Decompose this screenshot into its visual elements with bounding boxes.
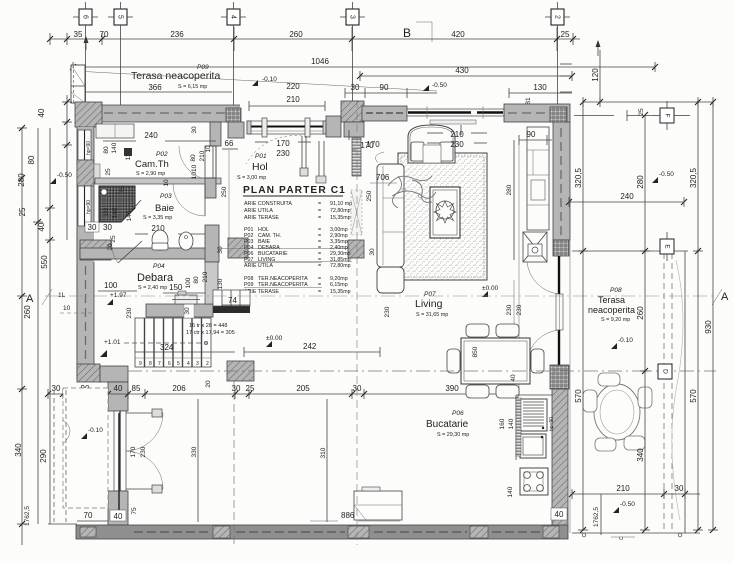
svg-text:210: 210 bbox=[450, 130, 464, 139]
grid A dash line bbox=[45, 295, 718, 297]
dim 40 mid bbox=[114, 384, 123, 393]
dim 40 boxed bottom bbox=[110, 510, 126, 521]
svg-text:3: 3 bbox=[196, 361, 199, 367]
svg-text:85: 85 bbox=[132, 384, 141, 393]
window right mid bbox=[556, 294, 563, 330]
grid bubble 5 bbox=[108, 2, 133, 106]
grid bubble 4 bbox=[221, 2, 246, 110]
armchairs top bbox=[408, 125, 455, 163]
dim 11 bbox=[58, 292, 66, 299]
svg-text:340: 340 bbox=[14, 443, 23, 457]
svg-text:40: 40 bbox=[37, 222, 46, 231]
debara door diagonal bbox=[112, 240, 142, 263]
stair upper treads bbox=[213, 290, 250, 306]
pier grid4 mid crosshatch bbox=[228, 238, 248, 258]
left pier baie corner bbox=[80, 240, 111, 260]
svg-text:3: 3 bbox=[349, 15, 356, 19]
svg-text:706: 706 bbox=[376, 173, 390, 182]
svg-text:-0.50: -0.50 bbox=[620, 501, 635, 508]
svg-text:Terasa neacoperita: Terasa neacoperita bbox=[131, 70, 220, 82]
right dim chain bbox=[578, 97, 718, 530]
svg-text:40: 40 bbox=[114, 384, 123, 393]
grid bubble 6 bbox=[73, 2, 98, 104]
svg-text:PLAN PARTER C1: PLAN PARTER C1 bbox=[243, 185, 346, 196]
level +1.97 bbox=[107, 292, 127, 305]
tv x-brace bbox=[523, 232, 547, 262]
level -0.50 bottom right bbox=[613, 501, 635, 513]
svg-text:=: = bbox=[318, 289, 321, 295]
svg-text:130: 130 bbox=[217, 278, 224, 289]
svg-text:2: 2 bbox=[554, 15, 561, 19]
left labels bbox=[14, 108, 49, 526]
top dimension row bbox=[47, 27, 580, 51]
svg-text:570: 570 bbox=[574, 389, 583, 403]
svg-text:100: 100 bbox=[104, 281, 118, 290]
jamb block window2 bbox=[82, 236, 91, 244]
dim 90 living bbox=[519, 130, 552, 395]
svg-text:7: 7 bbox=[158, 361, 161, 367]
door pier bottom bbox=[108, 413, 128, 525]
svg-text:D: D bbox=[661, 369, 668, 374]
svg-text:=: = bbox=[318, 215, 321, 221]
dim 40 boxed kitchen bbox=[551, 508, 567, 520]
svg-text:230: 230 bbox=[140, 446, 147, 457]
wall camth-hol divider bbox=[210, 122, 221, 146]
svg-text:P04: P04 bbox=[153, 263, 165, 270]
living top wall right bbox=[504, 104, 570, 122]
dim 430 bbox=[357, 66, 575, 81]
svg-text:ARIE UTILA: ARIE UTILA bbox=[244, 208, 273, 214]
svg-text:Baie: Baie bbox=[155, 203, 174, 214]
svg-text:930: 930 bbox=[704, 320, 713, 334]
svg-text:S = 29,30 mp: S = 29,30 mp bbox=[437, 432, 469, 438]
svg-text:140: 140 bbox=[508, 418, 515, 429]
dim 81 rot bbox=[525, 97, 532, 105]
fridge grille bbox=[520, 399, 547, 431]
dim 30 boxed baie bbox=[85, 222, 99, 232]
kitchen sink bbox=[520, 434, 546, 458]
svg-text:35: 35 bbox=[74, 30, 83, 39]
level -0.50 left bbox=[50, 172, 72, 184]
left window 2 bbox=[78, 186, 91, 226]
svg-text:205: 205 bbox=[296, 384, 310, 393]
svg-text:210: 210 bbox=[286, 95, 300, 104]
dim 170 living left bbox=[352, 141, 374, 150]
svg-text:210: 210 bbox=[616, 484, 630, 493]
svg-text:72,80mp: 72,80mp bbox=[330, 263, 351, 269]
dining table bbox=[447, 324, 544, 398]
svg-text:2: 2 bbox=[206, 361, 209, 367]
dim 310 rot bbox=[320, 399, 327, 522]
svg-text:75: 75 bbox=[119, 186, 126, 194]
svg-text:75: 75 bbox=[131, 507, 138, 515]
pier right D crosshatch bbox=[550, 365, 569, 389]
terrace right edge lines bbox=[572, 251, 700, 533]
svg-text:80: 80 bbox=[190, 154, 197, 162]
svg-text:-0.50: -0.50 bbox=[659, 171, 674, 178]
svg-text:9: 9 bbox=[139, 361, 142, 367]
kitchen counter bottom left bbox=[354, 487, 402, 520]
bubble E bbox=[660, 232, 674, 261]
left dim line inner bbox=[45, 128, 55, 524]
svg-text:30: 30 bbox=[184, 307, 191, 315]
dim 66 bbox=[222, 139, 238, 149]
svg-text:Bucatarie: Bucatarie bbox=[426, 419, 469, 430]
hol top window bbox=[247, 118, 327, 137]
wall camth-baie divider bbox=[95, 178, 221, 184]
svg-text:250: 250 bbox=[221, 186, 228, 197]
room Debara bbox=[137, 263, 174, 291]
section A left bbox=[26, 289, 52, 305]
pier below stairs bbox=[227, 361, 254, 381]
toilet bbox=[152, 230, 168, 250]
corner block top right bbox=[550, 107, 567, 122]
camth dims bbox=[103, 126, 216, 176]
svg-text:140: 140 bbox=[507, 486, 514, 497]
svg-text:=: = bbox=[318, 208, 321, 214]
wall top-left corner block bbox=[75, 102, 102, 127]
svg-text:420: 420 bbox=[451, 30, 465, 39]
window mullion marks top bbox=[427, 106, 483, 119]
pier grid3 top bbox=[326, 101, 364, 137]
level +-0.00 stairs bbox=[266, 335, 283, 347]
svg-text:366: 366 bbox=[148, 83, 162, 92]
svg-text:30: 30 bbox=[232, 384, 241, 393]
living rug bbox=[398, 153, 487, 280]
door camth bbox=[179, 146, 216, 180]
svg-text:230: 230 bbox=[450, 140, 464, 149]
terrace top slope line bbox=[75, 71, 437, 91]
dim 160 140 rot kitchen bbox=[499, 418, 515, 429]
bubble D bbox=[658, 364, 672, 379]
svg-text:140: 140 bbox=[126, 210, 133, 221]
svg-text:10: 10 bbox=[163, 179, 170, 187]
svg-text:4: 4 bbox=[230, 15, 237, 19]
dim ticks hol window bbox=[349, 125, 461, 140]
svg-text:-0.10: -0.10 bbox=[262, 76, 277, 83]
svg-text:40: 40 bbox=[510, 374, 517, 382]
small door mark debara bbox=[172, 291, 200, 304]
svg-text:40: 40 bbox=[114, 512, 123, 521]
svg-text:1762,5: 1762,5 bbox=[593, 507, 600, 527]
left terrace bbox=[48, 388, 108, 524]
svg-text:±0.00: ±0.00 bbox=[482, 285, 499, 292]
dim 242 bbox=[244, 342, 380, 357]
label hp=90 win2 bbox=[86, 200, 92, 214]
svg-text:90: 90 bbox=[380, 83, 389, 92]
section A right bbox=[712, 289, 729, 305]
dim 250 rot hol-left bbox=[221, 150, 229, 240]
svg-text:30: 30 bbox=[103, 223, 112, 232]
section letter B bbox=[403, 22, 432, 42]
svg-text:10: 10 bbox=[205, 145, 212, 153]
dims rot right of debara bbox=[185, 271, 224, 289]
tv small box bbox=[528, 244, 542, 256]
svg-text:ARIE UTILA: ARIE UTILA bbox=[244, 263, 273, 269]
svg-text:324: 324 bbox=[160, 343, 174, 352]
svg-text:25: 25 bbox=[638, 108, 645, 116]
svg-text:Cam.Th: Cam.Th bbox=[135, 159, 169, 170]
grid F line bbox=[574, 110, 690, 121]
dim 240 bbox=[569, 192, 684, 207]
svg-text:S = 6,15 mp: S = 6,15 mp bbox=[178, 84, 207, 90]
svg-text:250: 250 bbox=[366, 190, 373, 201]
svg-text:25: 25 bbox=[110, 235, 117, 243]
svg-text:A: A bbox=[26, 293, 34, 305]
svg-text:P08: P08 bbox=[610, 287, 622, 294]
dim 210 30 bottom right bbox=[572, 484, 700, 499]
left dim line top bbox=[62, 95, 72, 240]
svg-text:170: 170 bbox=[276, 139, 290, 148]
svg-text:F: F bbox=[663, 114, 670, 118]
svg-text:230: 230 bbox=[516, 304, 523, 315]
svg-text:6: 6 bbox=[168, 361, 171, 367]
dim 20 rot bbox=[205, 380, 212, 388]
dim 170 right of hol bbox=[366, 140, 380, 149]
living top wall left bbox=[362, 106, 407, 121]
svg-text:S = 31,65 mp: S = 31,65 mp bbox=[416, 312, 448, 318]
svg-text:A: A bbox=[721, 291, 729, 303]
kitchen counter edge bbox=[516, 395, 552, 460]
svg-text:290: 290 bbox=[39, 449, 48, 463]
svg-text:Living: Living bbox=[415, 298, 443, 310]
wall hol-baie right bbox=[205, 146, 216, 198]
dim 220 210 bbox=[286, 82, 300, 104]
svg-text:-0.50: -0.50 bbox=[432, 82, 447, 89]
right terrace round table bbox=[583, 373, 652, 451]
svg-text:=: = bbox=[318, 201, 321, 207]
svg-text:140: 140 bbox=[112, 207, 119, 218]
svg-text:C: C bbox=[619, 536, 625, 540]
living coffee table bbox=[430, 187, 460, 238]
svg-text:90: 90 bbox=[527, 130, 536, 139]
svg-text:30: 30 bbox=[369, 248, 376, 256]
svg-text:S = 3,35 mp: S = 3,35 mp bbox=[143, 215, 172, 221]
right wall kitchen hatched bbox=[552, 389, 568, 530]
svg-text:1L: 1L bbox=[58, 292, 66, 299]
axis dash grid4 bbox=[233, 380, 235, 545]
room Terasa right bbox=[588, 287, 635, 323]
label hp=90 win1 bbox=[86, 141, 92, 155]
svg-text:±0.00: ±0.00 bbox=[266, 335, 283, 342]
svg-text:220: 220 bbox=[286, 82, 300, 91]
dim 170 230 rot door bbox=[130, 446, 147, 457]
pier grid3 mid crosshatch bbox=[348, 240, 364, 258]
pier right of baie bbox=[205, 225, 219, 262]
svg-text:1762,5: 1762,5 bbox=[24, 506, 31, 526]
svg-text:-0.50: -0.50 bbox=[57, 172, 72, 179]
dim 230 rot stairs bbox=[126, 307, 133, 318]
grid D dash line bbox=[128, 370, 716, 372]
svg-text:5: 5 bbox=[177, 361, 180, 367]
dim row 30 90 / 130 bbox=[345, 83, 572, 98]
svg-text:17 ctr x 17,94 = 305: 17 ctr x 17,94 = 305 bbox=[186, 330, 235, 336]
dim 30 rot stairs bbox=[184, 304, 194, 318]
dim 366 bbox=[71, 83, 232, 92]
svg-text:280: 280 bbox=[506, 184, 513, 195]
svg-text:30: 30 bbox=[351, 83, 360, 92]
grid bubble 2 bbox=[545, 2, 570, 105]
left wall upper bbox=[77, 127, 94, 380]
svg-text:170: 170 bbox=[366, 140, 380, 149]
svg-text:20: 20 bbox=[205, 380, 212, 388]
svg-text:206: 206 bbox=[172, 384, 186, 393]
svg-text:Terasa: Terasa bbox=[598, 295, 625, 305]
svg-text:=: = bbox=[318, 263, 321, 269]
svg-text:S = 3,00 mp: S = 3,00 mp bbox=[237, 175, 266, 181]
dim ticks top right bbox=[560, 64, 572, 92]
svg-text:236: 236 bbox=[170, 30, 184, 39]
svg-text:P09: P09 bbox=[244, 282, 253, 288]
label hp=90 kitchen bbox=[549, 417, 555, 431]
room Baie bbox=[143, 193, 174, 221]
dim row y391 left bbox=[48, 384, 516, 399]
dim 150 debara bbox=[163, 283, 205, 293]
radiator hol window bbox=[516, 398, 521, 456]
dim 140 rot stove bbox=[507, 486, 514, 497]
svg-text:886: 886 bbox=[341, 511, 355, 520]
svg-text:230: 230 bbox=[276, 149, 290, 158]
level -0.10 top bbox=[252, 76, 277, 86]
svg-text:170: 170 bbox=[130, 446, 137, 457]
svg-text:E: E bbox=[663, 244, 670, 249]
svg-text:Hol: Hol bbox=[252, 161, 268, 173]
terrace corner column bbox=[71, 65, 85, 103]
svg-text:15,35mp: 15,35mp bbox=[330, 215, 351, 221]
dim 10 stairs bbox=[60, 305, 95, 313]
svg-text:390: 390 bbox=[445, 384, 459, 393]
dim 75 rot bottom bbox=[131, 507, 138, 515]
svg-text:160: 160 bbox=[499, 418, 506, 429]
north arrow right bbox=[596, 40, 601, 56]
terrace top name bbox=[131, 70, 220, 90]
level -0.10 left terrace bbox=[81, 427, 103, 439]
svg-text:120: 120 bbox=[591, 68, 600, 82]
stair formula bbox=[186, 323, 235, 336]
living top window bbox=[407, 109, 504, 116]
svg-text:70: 70 bbox=[100, 30, 109, 39]
right wall face line bbox=[569, 122, 571, 533]
svg-text:P02: P02 bbox=[156, 151, 168, 158]
svg-text:280: 280 bbox=[636, 175, 645, 189]
dim 40 rot dining bbox=[510, 374, 517, 382]
svg-text:260: 260 bbox=[23, 305, 32, 319]
svg-text:-0.10: -0.10 bbox=[88, 427, 103, 434]
chimney strip grid3 bbox=[351, 190, 362, 235]
svg-text:80: 80 bbox=[103, 208, 110, 216]
dim 230 rot living bottom bbox=[384, 306, 391, 317]
hol dims 170 230 bbox=[255, 139, 311, 158]
svg-text:S = 2,90 mp: S = 2,90 mp bbox=[136, 171, 165, 177]
svg-text:550: 550 bbox=[40, 255, 49, 269]
left dim line outer bbox=[17, 128, 27, 545]
area table bbox=[244, 201, 352, 295]
svg-text:25: 25 bbox=[18, 207, 27, 216]
svg-text:30: 30 bbox=[191, 126, 198, 134]
dim 324 bbox=[135, 343, 235, 352]
svg-text:242: 242 bbox=[303, 342, 317, 351]
svg-text:850: 850 bbox=[472, 346, 479, 357]
stair numbers bbox=[139, 361, 209, 367]
svg-text:ARIE TERASE: ARIE TERASE bbox=[244, 215, 279, 221]
svg-text:30: 30 bbox=[217, 246, 224, 254]
dim 210 230 living bbox=[427, 130, 487, 149]
left wall lower run bbox=[77, 228, 94, 380]
svg-text:=: = bbox=[318, 282, 321, 288]
hol door leaf bbox=[246, 136, 308, 176]
terrace top label P09 bbox=[197, 64, 209, 71]
baie shower bbox=[99, 186, 141, 222]
svg-text:70: 70 bbox=[84, 511, 93, 520]
dim 120 line bbox=[599, 50, 601, 102]
dim 1762,5 right bbox=[593, 494, 601, 535]
svg-text:25: 25 bbox=[561, 30, 570, 39]
camth closet bbox=[96, 124, 134, 156]
svg-text:260: 260 bbox=[289, 30, 303, 39]
svg-text:340: 340 bbox=[636, 448, 645, 462]
hol window radiator top bbox=[430, 120, 476, 124]
dim 100 debara bbox=[98, 281, 137, 291]
stair beam black bbox=[213, 306, 250, 313]
french door west bbox=[114, 409, 163, 493]
svg-text:5: 5 bbox=[117, 15, 124, 19]
svg-text:B: B bbox=[403, 26, 411, 40]
dim 330 rot bbox=[191, 399, 198, 522]
door kitchen-terrace panel bbox=[527, 330, 559, 366]
svg-text:130: 130 bbox=[533, 83, 547, 92]
axis dash grid3 bbox=[356, 100, 358, 545]
pier right E crosshatch bbox=[553, 240, 569, 256]
svg-text:310: 310 bbox=[320, 447, 327, 458]
svg-text:25: 25 bbox=[246, 384, 255, 393]
wall right of debara bbox=[205, 262, 218, 304]
svg-text:230: 230 bbox=[126, 307, 133, 318]
sofa L bbox=[376, 152, 404, 293]
svg-text:80: 80 bbox=[193, 276, 200, 284]
right dim labels bbox=[574, 68, 713, 462]
left wall pier a bbox=[77, 160, 100, 186]
bubble F bbox=[653, 101, 681, 130]
svg-text:91,10 mp: 91,10 mp bbox=[330, 201, 352, 207]
room Cam.Th bbox=[135, 151, 169, 177]
svg-text:8: 8 bbox=[149, 361, 152, 367]
svg-text:260: 260 bbox=[636, 306, 645, 320]
left dim line mid bbox=[33, 128, 43, 524]
baie dims bbox=[103, 164, 224, 253]
svg-text:81: 81 bbox=[525, 97, 532, 105]
right wall living bbox=[553, 122, 570, 240]
bottom tick marks right bbox=[582, 533, 682, 540]
svg-text:280: 280 bbox=[17, 173, 26, 187]
level -0.50 right top bbox=[652, 171, 674, 183]
grid bubble 3 bbox=[340, 2, 365, 102]
dim 70 40 bottom left bbox=[77, 511, 108, 521]
svg-text:TER.NEACOPERITA: TER.NEACOPERITA bbox=[258, 282, 308, 288]
dims 230 230 right pair bbox=[506, 280, 523, 340]
level -0.10 right terrace bbox=[611, 337, 633, 349]
debara bottom wall bbox=[146, 304, 213, 317]
svg-text:30: 30 bbox=[88, 223, 97, 232]
plant swirl bbox=[388, 176, 436, 208]
svg-text:80: 80 bbox=[103, 146, 110, 154]
svg-text:74: 74 bbox=[228, 296, 237, 305]
svg-text:210: 210 bbox=[202, 271, 209, 282]
svg-text:320,5: 320,5 bbox=[574, 167, 583, 188]
dim 886 bbox=[310, 511, 400, 521]
svg-text:neacoperita: neacoperita bbox=[588, 305, 635, 315]
tv cabinet bbox=[527, 127, 549, 230]
bottom wall band bbox=[76, 525, 568, 539]
